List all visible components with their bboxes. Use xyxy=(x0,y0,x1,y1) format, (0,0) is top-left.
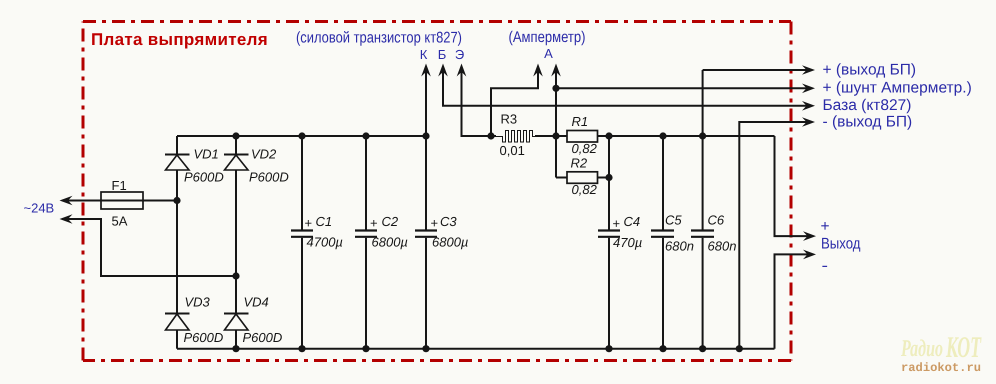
svg-text:C3: C3 xyxy=(440,214,457,229)
svg-text:C2: C2 xyxy=(382,214,399,229)
svg-text:680n: 680n xyxy=(665,239,694,254)
svg-text:Радио: Радио xyxy=(900,336,943,362)
svg-text:А: А xyxy=(544,46,553,61)
svg-text:P600D: P600D xyxy=(243,330,283,345)
svg-text:+: + xyxy=(370,216,378,231)
svg-text:VD4: VD4 xyxy=(244,295,269,310)
svg-text:6800µ: 6800µ xyxy=(372,235,408,250)
svg-text:Плата выпрямителя: Плата выпрямителя xyxy=(91,30,268,49)
svg-text:radiokot.ru: radiokot.ru xyxy=(901,361,981,375)
svg-text:Выход: Выход xyxy=(821,235,861,252)
svg-text:(силовой транзистор кт827): (силовой транзистор кт827) xyxy=(296,30,462,47)
svg-text:+: + xyxy=(613,216,621,231)
svg-text:C4: C4 xyxy=(624,214,641,229)
svg-text:6800µ: 6800µ xyxy=(432,235,468,250)
svg-text:4700µ: 4700µ xyxy=(307,235,343,250)
svg-text:R2: R2 xyxy=(571,156,588,171)
svg-text:~24В: ~24В xyxy=(24,201,55,216)
svg-text:К: К xyxy=(420,47,428,62)
svg-text:+ (выход БП): + (выход БП) xyxy=(823,61,917,78)
svg-text:P600D: P600D xyxy=(249,170,289,185)
svg-text:Б: Б xyxy=(438,47,447,62)
svg-text:+: + xyxy=(305,216,313,231)
svg-text:Э: Э xyxy=(455,47,464,62)
svg-text:0,82: 0,82 xyxy=(572,141,598,156)
svg-text:F1: F1 xyxy=(112,178,127,193)
svg-text:(Амперметр): (Амперметр) xyxy=(509,29,586,46)
svg-text:VD1: VD1 xyxy=(194,147,219,162)
svg-text:- (выход БП): - (выход БП) xyxy=(823,113,913,130)
svg-text:C1: C1 xyxy=(316,214,333,229)
svg-text:+: + xyxy=(431,216,439,231)
svg-text:470µ: 470µ xyxy=(613,235,642,250)
svg-text:-: - xyxy=(822,258,829,275)
svg-text:0,01: 0,01 xyxy=(500,143,525,158)
svg-text:5A: 5A xyxy=(112,214,128,229)
svg-text:VD3: VD3 xyxy=(185,295,211,310)
svg-text:База (кт827): База (кт827) xyxy=(823,97,912,114)
svg-text:VD2: VD2 xyxy=(251,147,277,162)
svg-text:R1: R1 xyxy=(572,114,589,129)
svg-text:P600D: P600D xyxy=(184,170,224,185)
svg-text:P600D: P600D xyxy=(184,330,224,345)
svg-text:680n: 680n xyxy=(708,239,737,254)
svg-text:R3: R3 xyxy=(501,112,518,127)
svg-text:+: + xyxy=(821,218,830,235)
svg-text:+ (шунт Амперметр.): + (шунт Амперметр.) xyxy=(823,80,972,97)
svg-text:C5: C5 xyxy=(665,213,682,228)
svg-text:КОТ: КОТ xyxy=(945,331,982,364)
svg-text:C6: C6 xyxy=(708,213,725,228)
svg-text:0,82: 0,82 xyxy=(572,182,598,197)
